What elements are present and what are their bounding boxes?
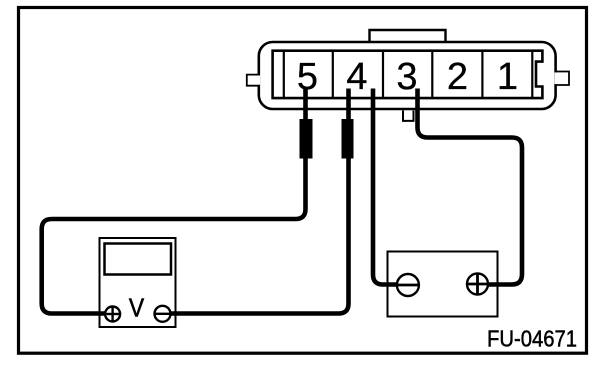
svg-text:V: V [129, 294, 145, 323]
connector housing outer shell [259, 42, 556, 109]
divider pins 5-4 [332, 51, 334, 98]
connector right lock tab [555, 72, 570, 86]
connector left lock tab [247, 75, 260, 86]
svg-text:1: 1 [497, 56, 518, 98]
connector top tab [370, 30, 446, 42]
connector left end divider [283, 51, 285, 98]
probe block on wire W1 [300, 119, 313, 159]
wire W1 pin5 to voltmeter plus [42, 89, 306, 314]
probe block on wire W2 [342, 119, 354, 159]
svg-text:2: 2 [447, 56, 468, 98]
voltmeter display window [105, 244, 172, 275]
divider pin 1 right [531, 51, 533, 98]
voltmeter plus terminal [105, 307, 120, 322]
voltmeter body [100, 238, 176, 327]
svg-text:FU-04671: FU-04671 [487, 325, 577, 351]
divider pins 4-3 [382, 51, 384, 98]
wire W3 to battery minus [373, 89, 403, 285]
connector bottom notch [403, 111, 414, 121]
connector inner cavity box with right keyway [273, 51, 543, 98]
battery minus terminal [397, 274, 419, 296]
svg-text:3: 3 [396, 56, 417, 98]
battery plus terminal [467, 274, 488, 295]
wire W2 pin4 to voltmeter minus [165, 89, 349, 314]
voltmeter minus terminal [155, 306, 171, 322]
divider pins 2-1 [481, 51, 483, 98]
wire W4 pin3 to battery plus [418, 89, 523, 285]
divider pins 3-2 [431, 51, 433, 98]
battery body [388, 252, 498, 317]
